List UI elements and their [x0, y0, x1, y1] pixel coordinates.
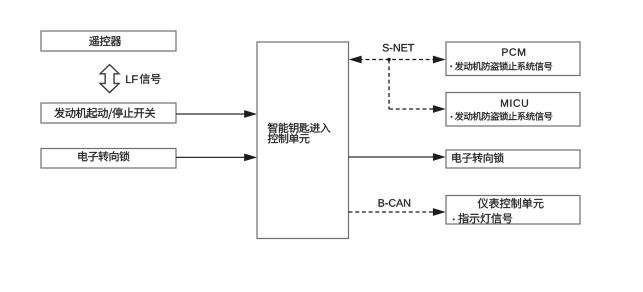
label LF [126, 75, 137, 83]
LF bidirectional hollow arrow [100, 65, 119, 93]
label 遥控器 (remote control) [89, 36, 121, 46]
S-NET dashed bus line [352, 59, 434, 61]
label 信号 (of LF 信号) [140, 74, 161, 84]
box: engine start/stop switch [41, 103, 176, 123]
label MICU [501, 99, 528, 106]
box: MICU [446, 93, 580, 127]
wire: steering lock (left) to control unit [176, 156, 247, 158]
label 智能钥匙进入 (line1) [268, 123, 331, 133]
label 指示灯信号 [458, 213, 512, 223]
label 电子转向锁 (right) [452, 153, 504, 163]
box: meter control unit [446, 196, 580, 225]
arrowhead: S-NET left (into control unit) [349, 56, 362, 64]
label S-NET [383, 44, 414, 52]
arrowhead: into MICU [433, 105, 446, 113]
arrowhead: into control unit from switch [244, 110, 257, 118]
label 电子转向锁 (left) [78, 151, 129, 161]
wire: start/stop switch to control unit [176, 113, 247, 115]
box: smart key entry control unit (center) [257, 42, 349, 239]
arrowhead: S-NET right (into PCM) [433, 56, 446, 64]
label 仪表控制单元 [478, 198, 544, 208]
bullet dot meter line [453, 219, 455, 221]
label 发动机防盗锁止系统信号 (PCM) [455, 62, 553, 71]
box: remote control 遥控器 [41, 31, 176, 51]
B-CAN dashed wire [349, 211, 435, 213]
label 发动机防盗锁止系统信号 (MICU) [455, 112, 553, 121]
label 发动机起动/停止开关 [54, 108, 155, 120]
S-NET junction dot [387, 58, 390, 61]
arrowhead: into control unit from steering lock [244, 154, 257, 162]
arrowhead: into meter control unit [433, 208, 446, 216]
label B-CAN [379, 199, 411, 207]
box: electronic steering lock (right) [446, 150, 580, 168]
box: PCM [446, 42, 580, 76]
S-NET branch vertical dashed wire [388, 60, 390, 110]
wire: control unit to steering lock (right), solid [349, 156, 435, 158]
bullet dot PCM line [450, 66, 452, 68]
label PCM [502, 48, 525, 55]
bullet dot MICU line [451, 116, 453, 118]
arrowhead: into right steering lock box [433, 153, 446, 161]
S-NET branch horizontal dashed wire to MICU [389, 108, 434, 110]
box: electronic steering lock (left) [41, 149, 176, 169]
label 控制单元 (line2) [268, 133, 310, 143]
